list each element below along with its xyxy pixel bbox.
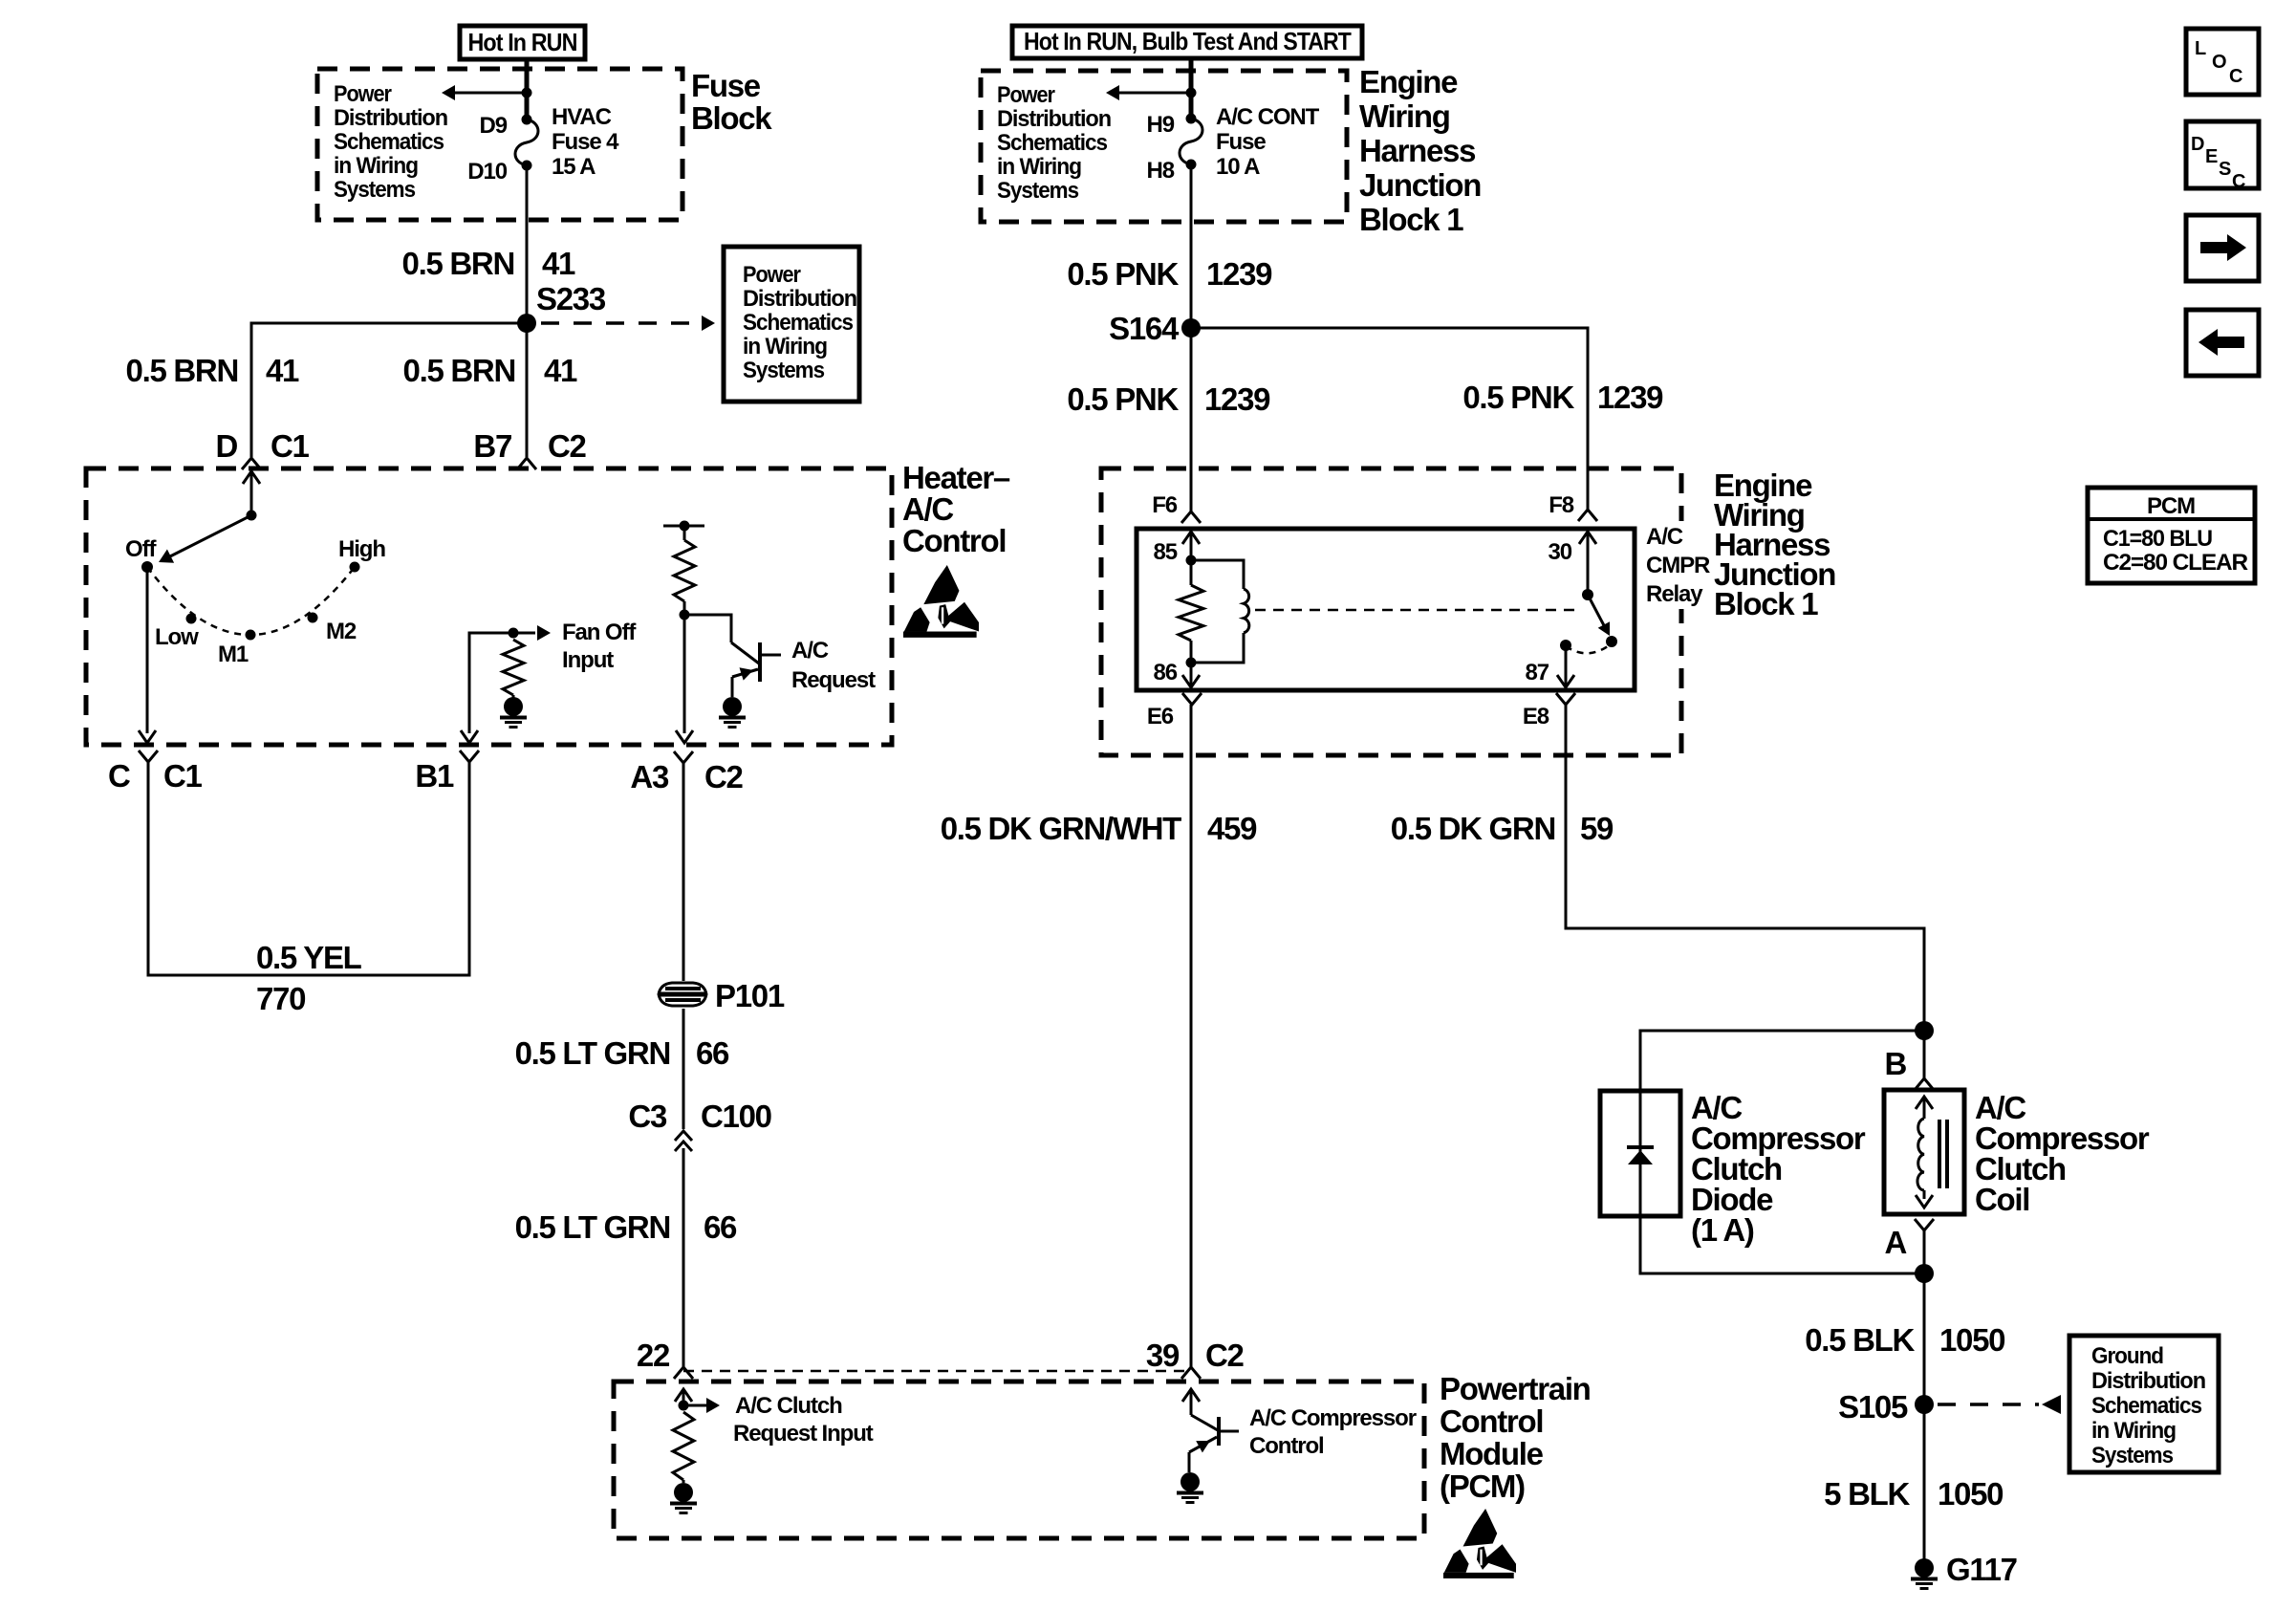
pin D9 — [522, 115, 532, 125]
connector A3 C2 — [674, 751, 693, 763]
junction dot (fuse feed) — [522, 88, 532, 98]
svg-text:CMPR: CMPR — [1646, 553, 1710, 578]
grommet P101 — [659, 983, 706, 1006]
svg-text:Ground: Ground — [2091, 1343, 2163, 1369]
svg-text:C1=80 BLU: C1=80 BLU — [2103, 526, 2212, 552]
svg-text:Distribution: Distribution — [334, 105, 447, 131]
switch contact Low — [186, 614, 197, 624]
signal arrow Fan Off Input — [537, 625, 551, 641]
svg-text:Fan Off: Fan Off — [562, 620, 637, 645]
svg-text:0.5 DK GRN/WHT: 0.5 DK GRN/WHT — [941, 811, 1181, 846]
svg-text:66: 66 — [704, 1209, 737, 1245]
coil terminal arrow (top) — [1923, 1099, 1926, 1119]
svg-text:(1 A): (1 A) — [1691, 1212, 1754, 1248]
clutch coil L2 — [1917, 1119, 1924, 1190]
legend box back arrow — [2186, 310, 2259, 376]
svg-text:Off: Off — [125, 536, 157, 562]
svg-text:0.5 BRN: 0.5 BRN — [402, 246, 514, 281]
svg-text:Fuse: Fuse — [691, 68, 761, 103]
ground (PCM pin 22) — [674, 1483, 693, 1502]
diode D1 — [1639, 1091, 1642, 1216]
svg-text:0.5 DK GRN: 0.5 DK GRN — [1391, 811, 1555, 846]
heater-A/C control dashed box — [86, 468, 892, 745]
svg-text:1050: 1050 — [1939, 1322, 2004, 1358]
svg-text:Systems: Systems — [334, 177, 416, 203]
svg-text:0.5 YEL: 0.5 YEL — [256, 940, 362, 975]
svg-text:Block 1: Block 1 — [1714, 586, 1818, 621]
svg-text:0.5 BRN: 0.5 BRN — [403, 353, 515, 388]
svg-text:A: A — [1884, 1225, 1906, 1260]
ground (A/C compressor control) — [1180, 1472, 1200, 1491]
svg-text:Schematics: Schematics — [2091, 1393, 2202, 1419]
connector C3 C100 — [675, 1131, 692, 1141]
pin 39 entry arrow — [1190, 1391, 1193, 1415]
switch contact M2 — [308, 613, 318, 623]
relay control dashed link — [1255, 609, 1577, 612]
svg-text:Schematics: Schematics — [743, 310, 854, 336]
svg-text:Block: Block — [691, 100, 772, 136]
blower switch dashed arc — [147, 567, 355, 635]
connector 39 C2 — [1181, 1367, 1201, 1379]
relay resistor — [1179, 585, 1203, 641]
blower switch wiper — [164, 515, 251, 559]
svg-text:Heater–: Heater– — [902, 460, 1010, 495]
svg-text:M2: M2 — [326, 619, 357, 644]
svg-text:(PCM): (PCM) — [1440, 1469, 1525, 1504]
svg-text:Engine: Engine — [1359, 64, 1458, 99]
connector F6 — [1181, 511, 1201, 523]
svg-text:0.5 PNK: 0.5 PNK — [1462, 380, 1574, 415]
wire resistor to ground — [682, 1480, 685, 1483]
svg-text:C3: C3 — [628, 1099, 667, 1134]
pin 22 entry arrow — [682, 1391, 685, 1405]
svg-text:Harness: Harness — [1359, 133, 1475, 168]
svg-text:Control: Control — [1249, 1433, 1324, 1459]
power feed label "Hot In RUN" — [460, 26, 585, 59]
svg-text:D9: D9 — [480, 113, 508, 139]
pin 86 — [1190, 663, 1193, 686]
svg-text:C1: C1 — [163, 758, 203, 794]
wire P101 to C100 — [682, 1009, 685, 1129]
connector B7 C2 — [517, 458, 536, 469]
blower switch pivot dot — [247, 511, 257, 521]
svg-text:1239: 1239 — [1204, 381, 1270, 417]
svg-text:B1: B1 — [415, 758, 454, 794]
transistor Q2 A/C Compressor Control — [1191, 1415, 1218, 1430]
pin 85 — [1190, 533, 1193, 560]
connector C C1 — [139, 751, 158, 762]
wire H8 to S164 — [1190, 164, 1193, 328]
svg-text:C2=80 CLEAR: C2=80 CLEAR — [2103, 550, 2248, 576]
svg-text:H9: H9 — [1147, 112, 1175, 138]
svg-text:PCM: PCM — [2147, 493, 2195, 519]
wire Off to C — [146, 567, 149, 733]
svg-text:Systems: Systems — [743, 358, 825, 383]
svg-text:1239: 1239 — [1206, 256, 1272, 292]
relay K1 A/C CMPR Relay box — [1137, 529, 1635, 690]
connector D C1 — [242, 458, 261, 469]
svg-text:HVAC: HVAC — [552, 104, 612, 130]
pin H8 — [1186, 160, 1197, 170]
svg-text:D: D — [2191, 134, 2204, 155]
wire S105 to G117 — [1923, 1404, 1926, 1559]
wire E8 to clutch node B — [1566, 705, 1924, 1031]
wire node A to S105 — [1923, 1273, 1926, 1404]
svg-text:Input: Input — [562, 647, 614, 673]
svg-text:770: 770 — [256, 981, 305, 1016]
transistor Q1 A/C Request — [684, 615, 731, 642]
wire C to B1 (0.5 YEL 770) — [148, 762, 469, 975]
PCM connector table — [2088, 488, 2255, 583]
junction dot (fan off) — [509, 628, 519, 639]
svg-text:E8: E8 — [1523, 704, 1549, 729]
svg-text:C100: C100 — [701, 1099, 771, 1134]
pin 30 — [1587, 533, 1590, 595]
svg-text:Control: Control — [1440, 1403, 1543, 1439]
reference box Ground Distribution Schematics in Wiring Systems — [2069, 1336, 2219, 1472]
svg-text:Distribution: Distribution — [2091, 1368, 2205, 1394]
svg-text:Schematics: Schematics — [997, 130, 1108, 156]
wire node B to diode branch — [1640, 1031, 1924, 1091]
junction node B splice — [1915, 1021, 1934, 1040]
svg-text:F6: F6 — [1152, 492, 1178, 518]
svg-text:C2: C2 — [548, 428, 587, 464]
svg-text:S105: S105 — [1838, 1389, 1908, 1425]
engine wiring harness junction block 1 dashed box (top) — [981, 71, 1347, 222]
svg-text:C2: C2 — [1205, 1338, 1245, 1373]
svg-text:Power: Power — [997, 82, 1055, 108]
svg-text:Block 1: Block 1 — [1359, 202, 1463, 237]
svg-text:15 A: 15 A — [552, 154, 596, 180]
connector B1 — [460, 751, 479, 762]
relay coil L1 — [1244, 589, 1249, 633]
power distribution reference arrow (junction block) — [1117, 92, 1191, 95]
svg-text:High: High — [338, 536, 385, 562]
svg-text:41: 41 — [266, 353, 299, 388]
junction dot 85 — [1186, 555, 1197, 566]
svg-text:85: 85 — [1154, 539, 1178, 565]
connector 22 — [674, 1367, 693, 1379]
ground G117 — [1915, 1558, 1934, 1577]
svg-text:Fuse 4: Fuse 4 — [552, 129, 619, 155]
splice S164 — [1181, 318, 1201, 337]
svg-text:Low: Low — [155, 624, 199, 650]
A/C compressor clutch coil box — [1884, 1090, 1964, 1214]
splice S105 — [1915, 1395, 1934, 1414]
A/C compressor clutch diode box — [1600, 1091, 1680, 1216]
fuse F1 HVAC Fuse 4 15 A — [515, 120, 538, 165]
svg-text:Power: Power — [743, 262, 801, 288]
svg-text:O: O — [2212, 52, 2227, 73]
svg-text:H8: H8 — [1147, 158, 1175, 184]
svg-text:Wiring: Wiring — [1359, 98, 1450, 134]
junction dot (A/C request) — [680, 610, 690, 620]
wire Hot In RUN to fuse block — [525, 59, 530, 120]
blower switch feed arrow (D) — [250, 473, 253, 515]
PCM C2 connector dashed link — [683, 1370, 1191, 1373]
legend box LOC — [2186, 29, 2259, 95]
relay switch contact dot (arm) — [1606, 636, 1617, 647]
svg-text:5 BLK: 5 BLK — [1824, 1476, 1910, 1512]
connector A — [1915, 1219, 1934, 1230]
fuse F2 A/C CONT Fuse 10 A — [1180, 119, 1202, 164]
connector E6 — [1182, 693, 1202, 705]
svg-text:A/C Compressor: A/C Compressor — [1249, 1405, 1417, 1431]
fan off input branch wire — [469, 633, 535, 733]
svg-text:0.5 BLK: 0.5 BLK — [1805, 1322, 1915, 1358]
switch contact M1 — [246, 630, 256, 641]
relay switch arm — [1588, 595, 1606, 629]
svg-text:B: B — [1884, 1046, 1906, 1081]
legend box forward arrow — [2186, 215, 2259, 281]
svg-text:66: 66 — [696, 1035, 729, 1071]
svg-text:in Wiring: in Wiring — [997, 154, 1081, 180]
svg-text:B7: B7 — [473, 428, 511, 464]
relay switch pivot dot — [1582, 589, 1593, 600]
svg-text:41: 41 — [542, 246, 575, 281]
svg-text:C1: C1 — [271, 428, 310, 464]
svg-text:S233: S233 — [536, 281, 606, 316]
svg-text:Fuse: Fuse — [1216, 129, 1266, 155]
A/C request resistor — [683, 526, 686, 540]
svg-text:F8: F8 — [1549, 492, 1574, 518]
junction dot (A/C CONT feed) — [1186, 88, 1197, 98]
svg-text:0.5 PNK: 0.5 PNK — [1067, 256, 1179, 292]
svg-text:Junction: Junction — [1359, 167, 1481, 203]
wire A3 to P101 — [682, 763, 685, 981]
ESD symbol (PCM) — [1443, 1509, 1516, 1578]
svg-text:Module: Module — [1440, 1436, 1544, 1471]
pin D10 — [522, 161, 532, 171]
svg-text:0.5 BRN: 0.5 BRN — [126, 353, 238, 388]
ground (A/C request) — [723, 697, 742, 716]
junction node A splice — [1915, 1264, 1934, 1283]
svg-text:in Wiring: in Wiring — [334, 153, 418, 179]
svg-text:D10: D10 — [467, 159, 507, 185]
svg-text:Distribution: Distribution — [743, 286, 856, 312]
svg-text:D: D — [215, 428, 237, 464]
powertrain control module dashed box — [614, 1382, 1424, 1538]
svg-text:Powertrain: Powertrain — [1440, 1371, 1591, 1406]
wire S164 to F6 — [1190, 328, 1193, 511]
wire to A3 — [683, 615, 686, 733]
signal arrow A/C Clutch Request Input — [683, 1404, 707, 1407]
svg-text:22: 22 — [637, 1338, 670, 1373]
fuse block dashed box — [317, 69, 682, 220]
connector E8 — [1556, 693, 1575, 705]
coil terminal arrow (bottom) — [1923, 1190, 1926, 1199]
svg-text:459: 459 — [1207, 811, 1257, 846]
svg-text:C2: C2 — [704, 759, 744, 794]
svg-text:M1: M1 — [218, 642, 249, 667]
switch contact High — [350, 562, 360, 573]
legend box DESC — [2186, 121, 2259, 188]
svg-text:Request: Request — [791, 667, 876, 693]
svg-text:A/C Clutch: A/C Clutch — [735, 1393, 842, 1419]
fan off resistor — [503, 640, 524, 695]
switch contact Off — [141, 561, 153, 573]
svg-text:in Wiring: in Wiring — [2091, 1418, 2176, 1444]
ground distribution reference dashed arrow — [1938, 1403, 2039, 1406]
svg-text:C: C — [2232, 171, 2245, 192]
wire diode to node A — [1640, 1216, 1924, 1273]
svg-text:86: 86 — [1154, 660, 1178, 685]
ESD symbol (heater) — [903, 565, 979, 638]
wire Hot In RUN to junction block — [1189, 58, 1194, 119]
A/C request feed bar — [663, 525, 704, 528]
svg-text:Relay: Relay — [1646, 581, 1703, 607]
svg-text:L: L — [2195, 38, 2206, 59]
power feed label "Hot In RUN, Bulb Test And START" — [1012, 26, 1362, 58]
engine wiring harness junction block 1 dashed box (relay) — [1101, 468, 1681, 755]
svg-text:87: 87 — [1526, 660, 1549, 685]
svg-text:A3: A3 — [630, 759, 669, 794]
wire E6 to PCM pin 39 — [1190, 705, 1193, 1367]
connector F8 — [1578, 510, 1597, 521]
svg-text:59: 59 — [1580, 811, 1614, 846]
svg-text:A/C: A/C — [1646, 524, 1683, 550]
svg-text:Control: Control — [902, 523, 1006, 558]
svg-text:S: S — [2219, 159, 2231, 180]
svg-text:G117: G117 — [1946, 1552, 2017, 1587]
reference box Power Distribution Schematics in Wiring Systems — [724, 247, 859, 402]
svg-text:30: 30 — [1549, 539, 1572, 565]
svg-text:C: C — [108, 758, 130, 794]
svg-text:0.5 LT GRN: 0.5 LT GRN — [515, 1035, 670, 1071]
svg-text:0.5 PNK: 0.5 PNK — [1067, 381, 1179, 417]
power distribution reference arrow (fuse block) — [453, 92, 527, 95]
ground (fan off) — [504, 697, 523, 716]
svg-text:P101: P101 — [715, 978, 785, 1013]
svg-text:Schematics: Schematics — [334, 129, 444, 155]
svg-text:1050: 1050 — [1938, 1476, 2003, 1512]
svg-text:1239: 1239 — [1597, 380, 1663, 415]
svg-text:0.5 LT GRN: 0.5 LT GRN — [515, 1209, 670, 1245]
wire A to node — [1923, 1230, 1926, 1273]
svg-text:in Wiring: in Wiring — [743, 334, 827, 359]
relay switch dashed arc — [1566, 643, 1612, 653]
splice S233 — [517, 314, 536, 333]
svg-text:39: 39 — [1146, 1338, 1180, 1373]
svg-text:Coil: Coil — [1975, 1182, 2029, 1217]
wire S233 left branch to D — [251, 323, 527, 457]
svg-text:Hot In RUN: Hot In RUN — [468, 28, 577, 56]
svg-text:A/C: A/C — [791, 638, 829, 664]
svg-text:E6: E6 — [1147, 704, 1174, 729]
svg-text:S164: S164 — [1109, 311, 1180, 346]
label A/C CMPR Relay — [1638, 521, 1709, 609]
junction dot (clutch request) — [679, 1401, 689, 1411]
connector B — [1923, 1031, 1926, 1078]
svg-text:Hot In RUN, Bulb Test And STAR: Hot In RUN, Bulb Test And START — [1024, 27, 1352, 55]
svg-text:Request Input: Request Input — [733, 1421, 874, 1447]
wire C100 to PCM 22 — [682, 1148, 685, 1367]
svg-text:A/C CONT: A/C CONT — [1216, 104, 1320, 130]
svg-text:Systems: Systems — [997, 178, 1079, 204]
PCM input resistor — [673, 1412, 694, 1480]
dashed reference arrow S233 — [541, 321, 690, 325]
svg-text:Systems: Systems — [2091, 1443, 2174, 1469]
pin 87 — [1560, 640, 1571, 651]
svg-text:C: C — [2229, 66, 2242, 87]
svg-text:Distribution: Distribution — [997, 106, 1111, 132]
wire S233 to B7 — [526, 323, 529, 457]
wire D10 to S233 — [526, 165, 529, 323]
svg-text:10 A: 10 A — [1216, 154, 1260, 180]
clutch coil core bars — [1938, 1120, 1941, 1188]
junction dot 86 — [1186, 658, 1197, 668]
svg-text:41: 41 — [544, 353, 577, 388]
wire S164 to F8 — [1191, 328, 1588, 510]
svg-text:Power: Power — [334, 81, 392, 107]
svg-text:A/C: A/C — [902, 491, 953, 527]
relay coil branch wire — [1191, 560, 1244, 589]
pin H9 — [1186, 114, 1197, 124]
svg-text:E: E — [2205, 146, 2218, 167]
